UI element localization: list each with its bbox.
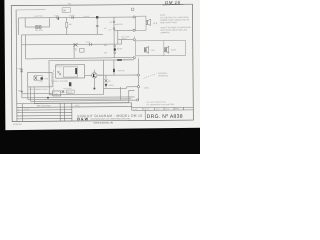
revisions row rule 4: [17, 117, 72, 119]
resistor R5 X mark: [104, 79, 107, 82]
header divider scale: [131, 103, 133, 110]
pilot lamp circle lower: [114, 52, 116, 54]
wire branch x67 lower: [66, 27, 68, 34]
header divider chkd: [153, 108, 155, 111]
wire branch x67 upper: [66, 18, 68, 23]
relay contact X marks: [57, 71, 61, 75]
wire riser x113.9 lower: [113, 72, 115, 75]
switch S1 box: [66, 90, 74, 93]
svg-text:100: 100: [109, 22, 112, 24]
punch hole circle top centre: [131, 8, 134, 11]
relay RLA coil box: [63, 67, 77, 77]
svg-text:240R 2W: 240R 2W: [117, 70, 124, 72]
transistor Q1 internals: [93, 74, 94, 77]
svg-text:NON POLAR TYPES: NON POLAR TYPES: [160, 21, 177, 24]
wire protection feed bus: [103, 74, 137, 76]
protection circuit outline box: [49, 60, 104, 95]
revisions header rule: [17, 106, 132, 109]
stamp box near top: [62, 8, 71, 13]
underline of handwritten id: [163, 3, 184, 6]
header divider drawn: [142, 108, 144, 111]
svg-text:4R7: 4R7: [108, 81, 111, 83]
svg-text:MODIFIED: MODIFIED: [13, 124, 23, 126]
relay RLA box: [56, 65, 85, 78]
svg-text:www.audiotec.de: www.audiotec.de: [93, 120, 113, 124]
thermistor TH1 body dark: [117, 59, 122, 61]
wire return bus 2: [22, 96, 135, 99]
wire left long drop: [20, 35, 22, 94]
wire relay to transistor: [85, 74, 92, 76]
resistor R2 vertical box: [66, 22, 68, 27]
wire R1 branch bottom: [25, 26, 49, 28]
input terminal minus mark: [21, 91, 23, 93]
terminal circle ext 2: [138, 86, 140, 88]
svg-text:ALL DIMENSIONS IN MILLIMETRES: ALL DIMENSIONS IN MILLIMETRES: [146, 103, 175, 106]
svg-text:2R2: 2R2: [104, 52, 107, 54]
wire protection mid bus: [104, 87, 127, 89]
wire left drop to R1 branch: [17, 18, 19, 35]
wire R1 branch right: [49, 18, 51, 27]
terminal circle HF-: [133, 29, 135, 31]
resistor R4 X mark: [73, 43, 77, 46]
wire transistor emitter: [93, 78, 95, 89]
wire return bus 1: [22, 93, 53, 95]
resistor R1 X marks: [36, 26, 41, 29]
header divider appd: [173, 107, 175, 110]
LF enclosure divider: [163, 41, 165, 56]
wire return bus 3 left riser: [27, 87, 29, 100]
terminal circle LF+: [133, 38, 135, 40]
transistor Q1 circle: [92, 73, 97, 78]
wire return bus 2 left riser: [21, 94, 23, 98]
revisions by column divider: [63, 103, 65, 121]
svg-text:24V COIL: 24V COIL: [56, 66, 63, 68]
wire return bus 4 left riser: [29, 87, 31, 101]
resistor R1 box: [36, 26, 42, 29]
svg-text:2: 2: [18, 111, 19, 113]
wire hf pad leg: [113, 17, 115, 58]
svg-text:1N4001: 1N4001: [108, 85, 114, 87]
right section header top rule: [132, 106, 193, 108]
wire return bus 3: [28, 98, 131, 101]
revisions date column divider: [59, 103, 61, 121]
input terminal plus mark: [20, 70, 22, 72]
capacitor C6 plates: [90, 43, 92, 46]
svg-text:DM 16: DM 16: [165, 0, 181, 5]
revisions table right edge: [71, 103, 73, 121]
capacitor C2 polarity blob: [58, 18, 59, 19]
inner border left vertical: [15, 10, 18, 121]
terminal circle ext 1: [137, 74, 139, 76]
wire riser x118: [117, 30, 119, 44]
svg-text:BLK & RED: BLK & RED: [121, 36, 130, 38]
LF enclosure box: [136, 40, 186, 55]
svg-text:6.8: 6.8: [104, 28, 106, 30]
svg-text:4R7: 4R7: [109, 30, 112, 32]
svg-text:2R2 10W: 2R2 10W: [35, 30, 43, 32]
HF unit enclosure box: [135, 16, 146, 30]
wire bass feed top: [118, 39, 133, 41]
svg-text:8R2: 8R2: [104, 45, 107, 47]
inner border partial top rule: [16, 9, 45, 11]
svg-text:TR2 BC214: TR2 BC214: [63, 88, 71, 90]
svg-text:+ RED: + RED: [17, 68, 23, 70]
wire R1 branch left: [24, 18, 26, 27]
outer drawing border: [11, 4, 193, 121]
wire top of protection to boundary: [103, 59, 134, 61]
wire riser x105.8: [105, 75, 107, 79]
wire right area box top stub: [129, 89, 135, 91]
wire mid bus Y3: [21, 33, 103, 36]
wire riser x97: [96, 17, 98, 34]
svg-text:L1: L1: [75, 50, 77, 52]
svg-text:0.33uF: 0.33uF: [69, 15, 76, 17]
revisions row rule 2: [17, 111, 72, 113]
wire riser x113.9: [113, 60, 115, 69]
scanner black left bar: [0, 0, 5, 131]
svg-text:REVISIONS: REVISIONS: [37, 106, 51, 108]
leader dashes to external terminals note: [144, 74, 157, 79]
speaker LF left icon: [144, 47, 148, 54]
inductor L1 box: [79, 48, 84, 52]
svg-text:ONWARDS: ONWARDS: [160, 31, 170, 34]
svg-text:H.F.: H.F.: [153, 23, 157, 25]
diode D2 body: [105, 83, 107, 87]
svg-text:2.2uF 50V: 2.2uF 50V: [34, 16, 43, 18]
capacitor C3 plates: [72, 16, 74, 19]
revisions narrow column divider: [21, 104, 23, 122]
relay RLA armature dark bar: [75, 68, 77, 74]
wire return bus 4: [30, 100, 136, 101]
wire hf return bus: [114, 29, 133, 31]
junction blob on emitter bus: [93, 88, 95, 90]
right section header bottom rule: [132, 109, 193, 111]
boundary line vertical: [137, 58, 139, 100]
fuse F1 X mark: [34, 76, 37, 80]
fuse lamp circle upper: [113, 21, 115, 23]
resistor R6 body dark: [113, 69, 115, 72]
capacitor C2 plates: [57, 16, 59, 19]
svg-text:1000uF: 1000uF: [83, 16, 90, 18]
stub above LF+ terminal: [133, 36, 135, 38]
header divider sht: [182, 107, 184, 110]
svg-text:TERMINALS: TERMINALS: [158, 74, 169, 77]
link box: [53, 91, 61, 96]
terminal panel box: [28, 72, 53, 87]
header divider date: [163, 107, 165, 110]
revisions row rule 1: [17, 109, 72, 111]
svg-text:(LINK): (LINK): [144, 88, 149, 90]
speaker HF driver icon: [146, 19, 150, 25]
svg-text:RESET: RESET: [67, 92, 72, 94]
terminal circle HF+: [133, 16, 135, 18]
pilot lamp circle upper: [114, 45, 116, 47]
wire bass feed riser: [121, 40, 123, 44]
wire transistor collector: [97, 74, 103, 76]
svg-text:TWEETER: TWEETER: [114, 24, 123, 26]
speaker LF right icon: [165, 46, 169, 53]
fuse lamp circle lower: [113, 28, 115, 30]
svg-text:LOUDSPEAKERS LTD. WORTHING ENG: LOUDSPEAKERS LTD. WORTHING ENGLAND: [90, 117, 131, 120]
wire right area box left edge: [128, 90, 130, 102]
dash-dot panel boundary: [53, 70, 55, 93]
fuse F1 box: [34, 76, 43, 81]
wire bus Y6: [25, 57, 133, 59]
title block top rule (revisions + title cells): [17, 102, 132, 105]
wire return bus 5 left riser: [33, 87, 35, 103]
svg-text:L.F.R: L.F.R: [171, 50, 176, 52]
capacitor C4b ticks: [96, 25, 99, 26]
svg-text:4R7: 4R7: [69, 24, 72, 26]
svg-text:DRG. Nº A838: DRG. Nº A838: [147, 114, 183, 120]
wire second drop: [24, 35, 26, 59]
junction blob LF: [114, 48, 116, 50]
wire top bus: [18, 16, 132, 19]
junction blob on bus 2: [47, 97, 49, 99]
wire drop x74: [73, 44, 75, 58]
wire return bus 5: [34, 102, 128, 105]
terminal circle ext 3: [137, 99, 139, 101]
transistor Q2 body: [69, 82, 71, 86]
scanner black bottom band: [0, 128, 200, 154]
drg number cell left edge: [144, 110, 146, 120]
terminal circle LF-: [133, 57, 135, 59]
revisions row rule 3: [17, 115, 72, 117]
wire riser x120.3: [119, 87, 121, 100]
wire bus Y4: [21, 43, 121, 46]
resistor R7 X mark: [62, 90, 65, 93]
svg-text:TITLE: TITLE: [75, 105, 81, 107]
wire link bus: [126, 86, 137, 88]
capacitor C4 polarized body: [96, 16, 98, 18]
wire jog riser x126.3: [125, 87, 127, 88]
svg-text:B & W: B & W: [77, 117, 88, 121]
paper: [0, 0, 200, 154]
fuse F1 element dark: [41, 77, 43, 79]
